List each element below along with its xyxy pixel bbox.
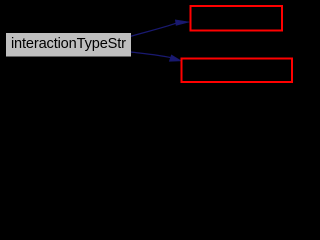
edge wire to bottom callee [131, 52, 171, 58]
edge wire to top callee [131, 23, 176, 36]
arrowhead to bottom callee [169, 55, 181, 61]
node interactionTypeStr (current node, grey) [6, 33, 132, 58]
svg-text:interactionTypeStr: interactionTypeStr [11, 36, 126, 52]
callee node 1 (red, truncated, top) [191, 6, 283, 31]
callee node 2 (red, truncated, bottom) [182, 59, 293, 83]
arrowhead to top callee [175, 20, 189, 26]
